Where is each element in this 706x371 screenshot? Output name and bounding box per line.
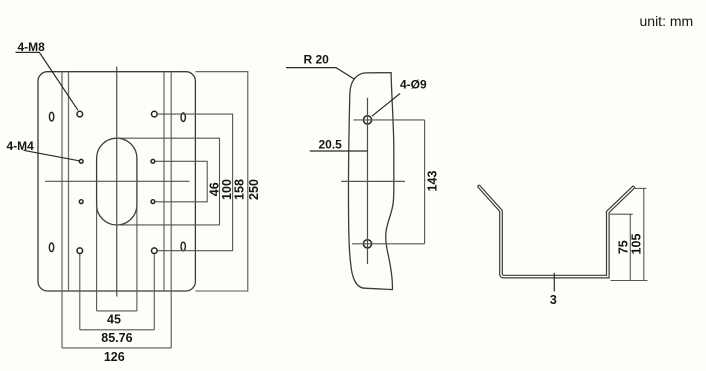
svg-text:4-M8: 4-M8: [18, 40, 46, 54]
svg-text:4-M4: 4-M4: [7, 139, 35, 153]
side plate outline: [349, 73, 394, 290]
dimension 75 line: [629, 214, 631, 280]
oval hole bottom-left: [49, 243, 53, 252]
vertical centerline middle view: [367, 98, 369, 264]
M4 hole top-left: [79, 159, 83, 163]
M4 hole bottom-right: [151, 200, 155, 204]
dimension 105 line: [643, 188, 645, 280]
plate outline: [38, 72, 195, 291]
label 20.5 leader: [310, 150, 368, 152]
svg-text:158: 158: [233, 179, 247, 200]
svg-text:126: 126: [104, 350, 125, 364]
label R 20 leader: [286, 68, 355, 80]
dimension 45 extension left: [96, 205, 98, 311]
svg-text:250: 250: [247, 179, 261, 200]
dimension 250 bracket: [195, 72, 247, 291]
M8 hole top-left: [77, 111, 83, 117]
dimension 100 bracket: [117, 138, 220, 225]
svg-text:20.5: 20.5: [319, 138, 343, 152]
M4 hole bottom-left: [79, 200, 83, 204]
label 4-M8 leader: [16, 52, 78, 110]
dimension 45 line: [97, 310, 137, 312]
oval hole bottom-right: [181, 242, 185, 251]
dimension 158 bracket: [158, 114, 233, 251]
top hole cross line / 143 extension top: [354, 119, 425, 121]
dimension 126 extension left: [61, 291, 63, 348]
horizontal centerline: [45, 180, 190, 182]
M4 hole top-right: [151, 159, 155, 163]
svg-text:unit: mm: unit: mm: [640, 13, 694, 29]
dimension 85.76 extension right: [153, 254, 155, 330]
dimension 126 line: [62, 347, 171, 349]
dimension 126 extension right: [170, 291, 172, 348]
label 4-M4 leader: [24, 150, 80, 161]
svg-text:143: 143: [426, 171, 440, 192]
bend line right inner: [163, 72, 165, 291]
hole bottom (Ø9): [363, 240, 371, 248]
M8 hole top-right: [152, 111, 158, 117]
hole top (Ø9): [363, 116, 371, 124]
channel strip outer line: [477, 187, 635, 278]
svg-text:45: 45: [107, 312, 121, 326]
svg-text:4-Ø9: 4-Ø9: [400, 78, 427, 92]
dimension 46 bracket: [155, 161, 207, 202]
dimension 45 extension right: [136, 205, 138, 311]
central obround slot: [97, 138, 137, 225]
oval hole top-left: [49, 112, 53, 121]
label 4-Ø9 leader: [372, 94, 400, 117]
dimension 105 extension top: [635, 187, 646, 189]
horizontal centerline middle view: [341, 180, 405, 182]
channel tip cap right: [633, 186, 635, 188]
dimension 75 extension top: [610, 213, 633, 215]
bend line left outer: [61, 72, 63, 291]
svg-text:75: 75: [617, 240, 631, 254]
dimension 143 line: [424, 120, 426, 244]
channel strip inner line: [479, 185, 633, 275]
M8 hole bottom-right: [152, 248, 158, 254]
bottom hole cross line / 143 extension bottom: [352, 243, 425, 245]
dimension 85.76 extension left: [79, 254, 81, 330]
oval hole top-right: [181, 113, 185, 122]
dimension 85.76 line: [80, 329, 155, 331]
bend line right outer: [170, 72, 172, 291]
vertical centerline: [116, 67, 118, 297]
svg-text:105: 105: [630, 234, 644, 255]
channel tip cap left: [477, 185, 479, 187]
bend line left inner: [68, 72, 70, 291]
label 3 leader: [553, 273, 555, 292]
M8 hole bottom-left: [77, 248, 83, 254]
svg-text:3: 3: [550, 293, 557, 307]
svg-text:85.76: 85.76: [101, 331, 132, 345]
svg-text:R 20: R 20: [304, 53, 330, 67]
bottom extension: [611, 280, 648, 282]
